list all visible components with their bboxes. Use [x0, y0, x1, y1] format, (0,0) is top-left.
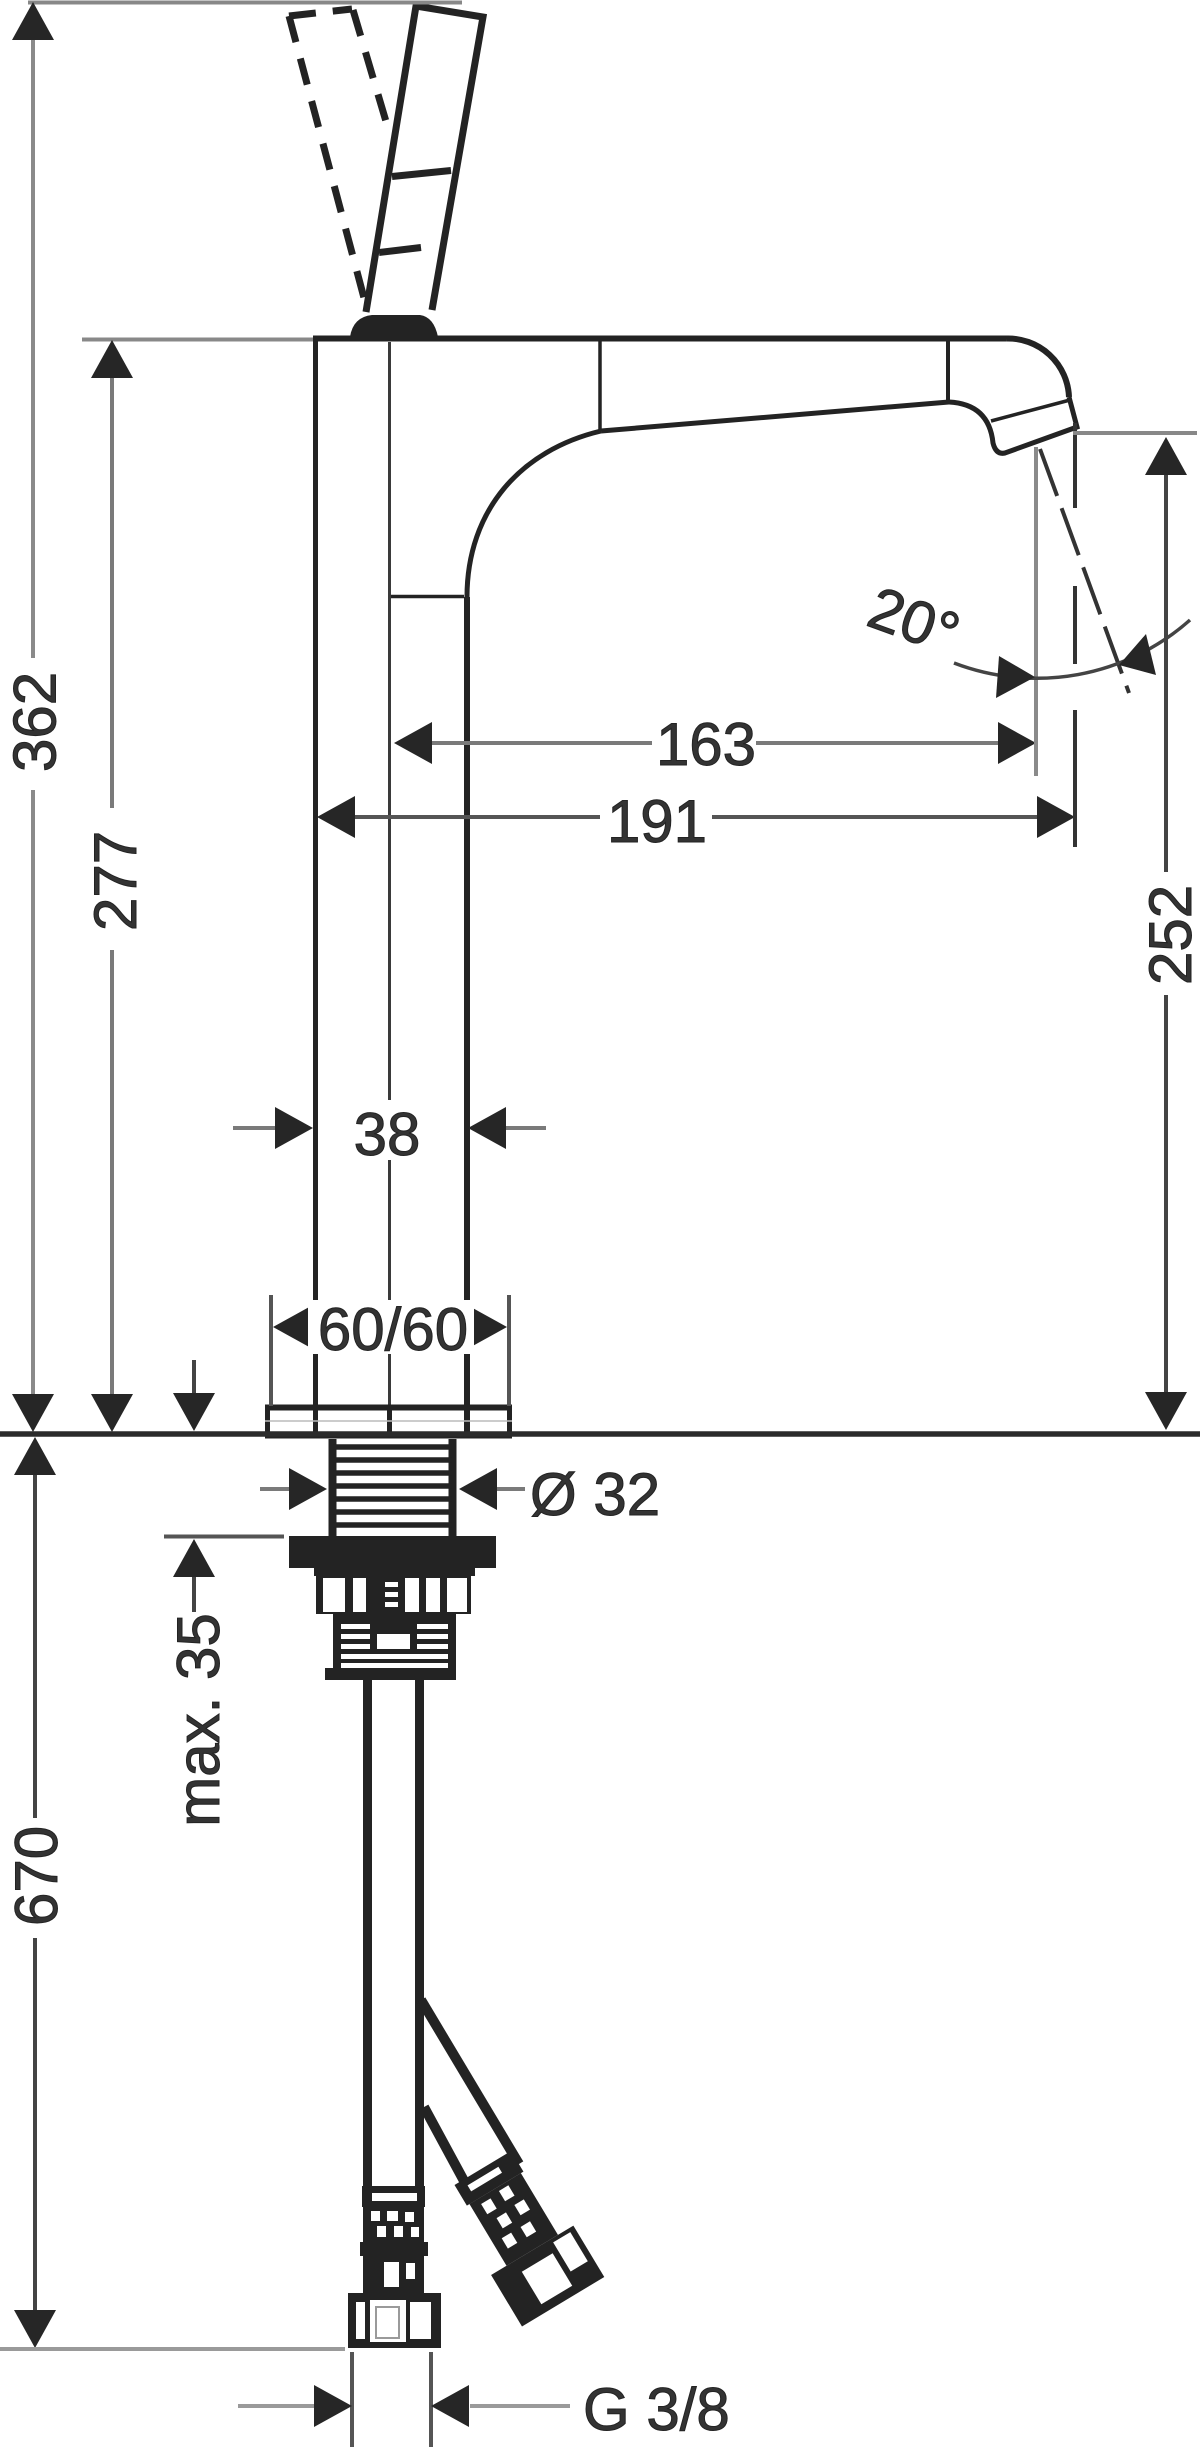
aerator seam — [991, 400, 1070, 421]
dim 277 line — [110, 368, 114, 1400]
dim 670 bottom reference line — [0, 2347, 345, 2351]
dim o32 right arrow — [459, 1468, 525, 1510]
right hose end nut — [491, 2226, 604, 2327]
svg-text:max. 35: max. 35 — [165, 1613, 232, 1826]
left hose end nut (G3/8) — [348, 2293, 441, 2348]
dim 38 text — [350, 1101, 424, 1168]
dim 60/60 text — [308, 1296, 474, 1363]
svg-text:38: 38 — [354, 1101, 421, 1168]
spout tip / aerator beak — [949, 397, 1077, 453]
svg-text:362: 362 — [2, 672, 69, 772]
right hose upper diagonal wall — [421, 2000, 519, 2164]
body top edge — [313, 336, 1006, 342]
dim 277 arrows — [91, 340, 133, 1432]
spout underside — [601, 402, 949, 431]
spout outer corner — [1006, 338, 1069, 397]
base plate escutcheon — [265, 1407, 512, 1438]
dim G38 arrows — [314, 2385, 469, 2427]
dim 20deg arc arrows — [996, 634, 1156, 698]
body seam at spout joint — [598, 341, 602, 431]
spout tip seam — [946, 341, 950, 403]
dim 191 extension line (spout tip) — [1073, 423, 1077, 847]
countertop line — [0, 1431, 1200, 1437]
dim max35 bottom arrow — [173, 1539, 215, 1612]
dim max35 extension line — [164, 1535, 284, 1539]
left hose braid section — [363, 2207, 424, 2242]
dim 252 line — [1164, 475, 1168, 1395]
dim 163 line — [428, 741, 1002, 745]
dim 277 extension line — [82, 338, 313, 342]
dim 60/60 arrows — [273, 1306, 507, 1348]
dim 38 left arrow — [233, 1107, 313, 1149]
right hose crimp collar — [442, 2143, 605, 2326]
right hose braid — [469, 2173, 558, 2266]
dim 362 line — [31, 30, 35, 1400]
handle lever (open position, dashed) — [289, 9, 390, 313]
mounting flange — [289, 1536, 496, 1568]
body left edge — [313, 338, 318, 1433]
mounting nut body — [314, 1558, 475, 1576]
body right column — [464, 597, 470, 1433]
svg-text:60/60: 60/60 — [318, 1296, 468, 1363]
svg-text:163: 163 — [656, 711, 756, 778]
svg-text:G 3/8: G 3/8 — [583, 2376, 730, 2443]
body S-curve to spout underside — [467, 431, 601, 597]
left hose mid crimp — [360, 2242, 428, 2256]
dim 252 extension line — [1073, 431, 1197, 435]
threaded shank — [333, 1439, 453, 1536]
left supply tube walls — [363, 1680, 372, 2186]
svg-text:252: 252 — [1137, 885, 1200, 985]
dim o32 left arrow — [260, 1468, 327, 1510]
body center line — [388, 342, 391, 1406]
dim 670 arrows — [14, 1437, 56, 2348]
dim max35 top arrow — [173, 1360, 215, 1431]
handle lever (closed position, solid) — [366, 6, 483, 312]
left hose crimp collar — [362, 2186, 425, 2207]
dim G38 extension lines — [352, 2352, 431, 2447]
castellated nut slots — [316, 1576, 471, 1614]
right hose lower diagonal wall — [424, 2107, 470, 2192]
dim 163 arrows — [394, 722, 1036, 764]
dim 38 right arrow — [468, 1107, 546, 1149]
dim G38 line — [238, 2404, 570, 2408]
left hose lower section — [363, 2256, 424, 2293]
svg-text:Ø 32: Ø 32 — [530, 1461, 660, 1528]
dim 20deg slanted stream line — [1040, 449, 1129, 693]
dim 20deg arc — [954, 620, 1190, 678]
dim 60/60 extension lines — [271, 1295, 509, 1406]
shank lower threaded section — [325, 1614, 456, 1680]
body shoulder line — [389, 595, 464, 599]
dim 191 arrows — [317, 796, 1075, 838]
dim 191 line — [352, 815, 1040, 819]
dim 252 arrows — [1145, 437, 1187, 1430]
handle pivot dome — [350, 315, 438, 337]
svg-text:277: 277 — [82, 831, 149, 931]
dim 362 arrows — [12, 2, 54, 1432]
svg-text:191: 191 — [607, 788, 707, 855]
dim 670 line — [33, 1475, 37, 2316]
dim 362 extension line (top) — [28, 1, 462, 5]
dim 163 extension line (outlet center) — [1034, 447, 1038, 776]
svg-text:670: 670 — [3, 1826, 70, 1926]
